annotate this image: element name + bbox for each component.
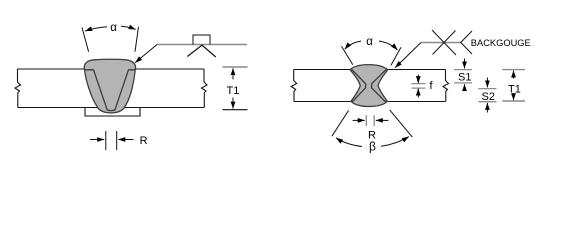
svg-text:f: f [430,80,434,92]
weld symbol rectangle (backing) [193,35,210,45]
beta arc arrows [336,138,362,147]
S1 dimension arrows [464,59,466,69]
S1 dimension lines [454,70,472,83]
alpha dimension left: extension lines [82,27,139,52]
S2 dimension arrows [486,78,488,88]
weld symbol reference line left [157,44,247,46]
T1 dimension left: extension lines [223,66,248,68]
f dimension arrows [417,75,419,84]
R dimension right arrows [353,119,365,121]
R dimension left: ticks [106,131,117,150]
right plate right break edge [443,70,449,102]
backgouge X symbol [432,30,456,55]
f dimension lines [412,84,426,89]
svg-text:S1: S1 [458,72,471,84]
weld bead left (gray fill) [84,59,135,113]
alpha dimension left: arc arrows [85,27,107,31]
T1 dimension right lines [502,70,525,101]
weld right (hourglass gray fill) [350,65,388,107]
R dimension left: arrows [90,139,104,141]
left plate right break edge [202,69,208,108]
groove faces right diagram [350,70,366,101]
right plate left break edge [291,70,297,102]
right plate top line [294,69,446,71]
svg-text:R: R [140,135,148,147]
backgouge reference line [421,42,461,44]
svg-text:BACKGOUGE: BACKGOUGE [471,38,531,48]
alpha dimension right: arc arrows [345,41,361,49]
right plate bottom line [294,101,446,103]
weld symbol V groove [187,45,216,57]
left plate left break edge [15,69,21,108]
weld symbol leader left [135,45,157,63]
alpha dimension right: extension lines [342,46,402,65]
beta dimension extension lines [332,110,412,137]
left plate bottom line [18,107,205,109]
svg-text:T1: T1 [227,85,240,97]
svg-text:S2: S2 [482,91,495,103]
svg-text:α: α [366,36,373,48]
svg-text:T1: T1 [508,83,521,95]
backgouge tail [461,31,472,54]
left plate top line [18,68,205,70]
groove faces left diagram [85,70,136,111]
backing bar left diagram [85,108,140,117]
T1 dimension right arrows [513,71,515,79]
svg-text:β: β [369,139,376,153]
R dimension right ticks [366,115,374,126]
backgouge leader right [395,43,421,68]
S2 dimension lines [478,89,496,102]
svg-text:α: α [110,22,117,34]
T1 dimension left: arrows [232,68,234,79]
